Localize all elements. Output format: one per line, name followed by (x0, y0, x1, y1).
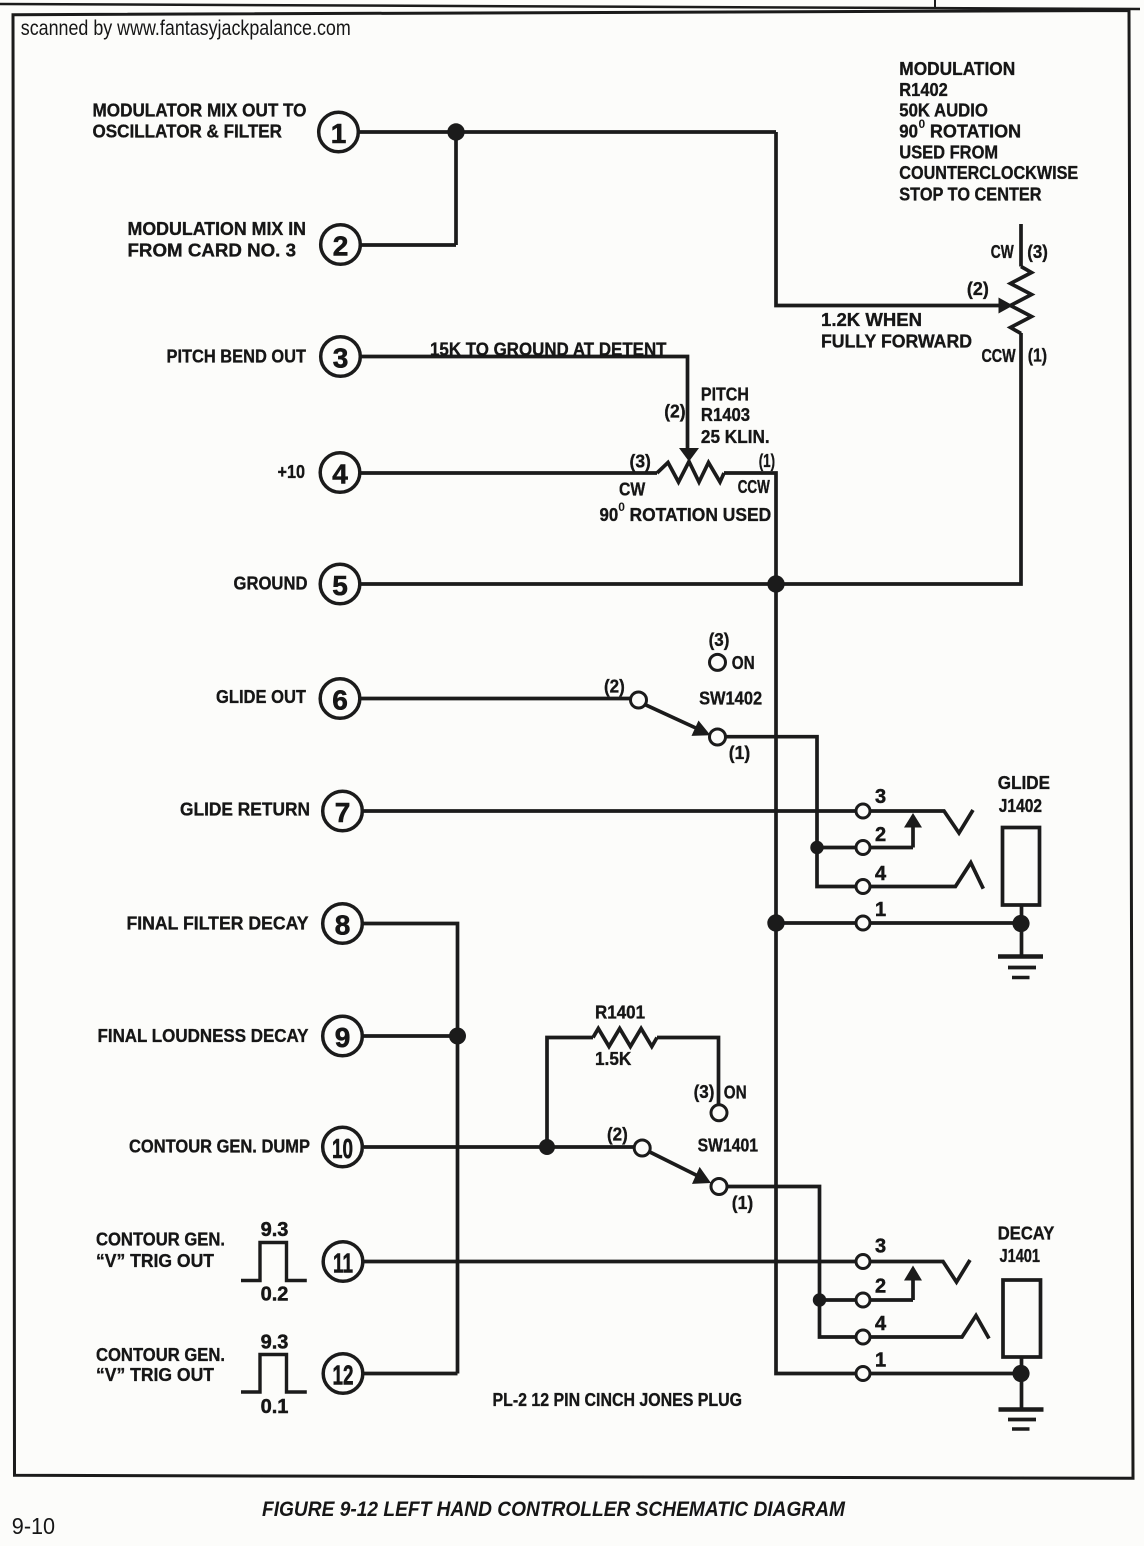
svg-text:15K TO GROUND AT DETENT: 15K TO GROUND AT DETENT (430, 339, 667, 360)
svg-text:7: 7 (335, 797, 351, 828)
svg-text:DECAY: DECAY (998, 1223, 1055, 1244)
svg-text:(1): (1) (759, 450, 775, 471)
svg-text:1: 1 (331, 118, 347, 149)
svg-text:(3): (3) (709, 629, 730, 650)
svg-text:6: 6 (332, 685, 348, 716)
svg-text:4: 4 (875, 1313, 887, 1335)
svg-text:OSCILLATOR & FILTER: OSCILLATOR & FILTER (93, 121, 283, 142)
svg-text:FINAL FILTER DECAY: FINAL FILTER DECAY (127, 913, 310, 934)
svg-text:“V” TRIG OUT: “V” TRIG OUT (96, 1364, 215, 1385)
svg-text:(2): (2) (967, 278, 989, 299)
svg-text:8: 8 (335, 910, 351, 941)
svg-text:(3): (3) (1027, 241, 1048, 262)
svg-text:0: 0 (919, 117, 926, 131)
svg-text:CONTOUR GEN.: CONTOUR GEN. (96, 1344, 225, 1365)
svg-text:STOP TO CENTER: STOP TO CENTER (899, 183, 1041, 204)
svg-text:2: 2 (333, 231, 349, 262)
svg-text:4: 4 (875, 863, 887, 885)
svg-text:5: 5 (332, 570, 348, 601)
svg-text:3: 3 (333, 343, 349, 374)
svg-text:0.1: 0.1 (261, 1396, 289, 1418)
svg-text:J1401: J1401 (1000, 1245, 1041, 1266)
svg-text:R1401: R1401 (595, 1002, 645, 1023)
svg-text:ON: ON (724, 1082, 747, 1103)
svg-text:USED FROM: USED FROM (899, 142, 998, 163)
svg-text:(1): (1) (1028, 345, 1047, 366)
svg-text:“V” TRIG OUT: “V” TRIG OUT (96, 1250, 215, 1271)
svg-text:(3): (3) (694, 1081, 715, 1102)
svg-text:90: 90 (600, 504, 619, 525)
svg-text:MODULATION MIX IN: MODULATION MIX IN (128, 218, 307, 239)
svg-text:1.5K: 1.5K (595, 1048, 632, 1069)
svg-text:1: 1 (875, 1350, 886, 1372)
svg-text:10: 10 (332, 1133, 353, 1164)
svg-text:11: 11 (333, 1248, 353, 1279)
svg-text:3: 3 (875, 786, 886, 808)
svg-text:2: 2 (875, 824, 886, 846)
svg-text:GLIDE: GLIDE (998, 772, 1050, 793)
svg-text:(2): (2) (664, 401, 685, 422)
svg-text:9.3: 9.3 (261, 1219, 289, 1241)
svg-text:CW: CW (619, 479, 646, 500)
svg-text:GLIDE RETURN: GLIDE RETURN (180, 799, 310, 820)
svg-text:CCW: CCW (982, 345, 1017, 366)
svg-text:0: 0 (618, 500, 625, 514)
svg-text:FROM CARD NO. 3: FROM CARD NO. 3 (128, 240, 297, 261)
svg-text:3: 3 (875, 1236, 886, 1258)
svg-text:SW1401: SW1401 (698, 1135, 758, 1156)
svg-text:ROTATION: ROTATION (930, 121, 1021, 142)
svg-text:CCW: CCW (738, 476, 770, 497)
svg-text:0.2: 0.2 (261, 1284, 289, 1306)
svg-text:SW1402: SW1402 (699, 688, 762, 709)
svg-text:(1): (1) (732, 1192, 753, 1213)
svg-text:PITCH BEND OUT: PITCH BEND OUT (167, 346, 307, 367)
svg-text:2: 2 (875, 1276, 886, 1298)
svg-text:MODULATION: MODULATION (899, 58, 1015, 79)
svg-text:90: 90 (899, 121, 918, 142)
svg-text:PL-2 12 PIN CINCH JONES PLUG: PL-2 12 PIN CINCH JONES PLUG (493, 1389, 743, 1410)
svg-text:CW: CW (991, 241, 1014, 262)
svg-text:MODULATOR MIX OUT TO: MODULATOR MIX OUT TO (93, 100, 307, 121)
svg-text:25 KLIN.: 25 KLIN. (701, 426, 770, 447)
svg-text:9: 9 (335, 1022, 351, 1053)
svg-text:12: 12 (333, 1360, 354, 1391)
svg-text:9-10: 9-10 (12, 1513, 55, 1539)
svg-text:50K AUDIO: 50K AUDIO (899, 100, 988, 121)
svg-text:CONTOUR GEN. DUMP: CONTOUR GEN. DUMP (129, 1136, 310, 1157)
svg-text:scanned by www.fantasyjackpala: scanned by www.fantasyjackpalance.com (21, 16, 351, 40)
svg-text:+10: +10 (278, 461, 306, 482)
svg-text:FULLY FORWARD: FULLY FORWARD (821, 330, 972, 351)
svg-text:FIGURE 9-12 LEFT HAND CONTROLL: FIGURE 9-12 LEFT HAND CONTROLLER SCHEMAT… (262, 1498, 845, 1521)
svg-text:FINAL LOUDNESS DECAY: FINAL LOUDNESS DECAY (98, 1025, 310, 1046)
svg-text:(1): (1) (729, 742, 750, 763)
svg-text:CONTOUR GEN.: CONTOUR GEN. (96, 1229, 225, 1250)
svg-text:ON: ON (732, 652, 755, 673)
svg-text:PITCH: PITCH (701, 384, 749, 405)
svg-text:GLIDE OUT: GLIDE OUT (216, 686, 307, 707)
svg-text:R1402: R1402 (899, 79, 948, 100)
svg-text:4: 4 (332, 459, 348, 490)
svg-text:ROTATION USED: ROTATION USED (630, 504, 772, 525)
svg-text:GROUND: GROUND (234, 573, 308, 594)
svg-text:(2): (2) (604, 676, 625, 697)
svg-text:1: 1 (875, 899, 886, 921)
svg-text:J1402: J1402 (999, 795, 1042, 816)
svg-text:(3): (3) (630, 451, 651, 472)
svg-text:COUNTERCLOCKWISE: COUNTERCLOCKWISE (899, 162, 1078, 183)
svg-text:(2): (2) (607, 1124, 628, 1145)
svg-text:9.3: 9.3 (261, 1332, 289, 1354)
svg-text:R1403: R1403 (701, 404, 750, 425)
svg-text:1.2K WHEN: 1.2K WHEN (821, 309, 922, 330)
